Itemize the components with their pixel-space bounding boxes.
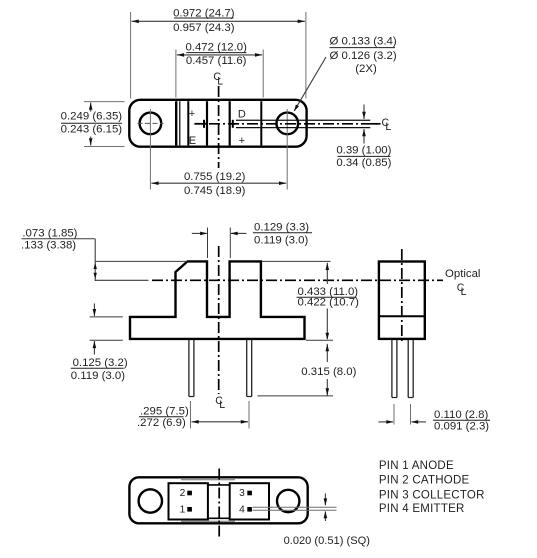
top view vertical centerline bbox=[218, 86, 220, 168]
dimension text .295 bbox=[137, 406, 189, 430]
pin function list bbox=[379, 460, 485, 515]
svg-text:0.755 (19.2): 0.755 (19.2) bbox=[184, 171, 246, 183]
front view left lead bbox=[189, 340, 194, 397]
bottom view mold lines bbox=[181, 480, 235, 522]
svg-text:.295 (7.5): .295 (7.5) bbox=[140, 406, 189, 418]
bottom view right pin block bbox=[230, 483, 269, 519]
bottom view right mounting hole bbox=[277, 490, 299, 512]
top view left mounting hole bbox=[140, 113, 162, 135]
top view package body outline bbox=[129, 100, 306, 147]
label + bottom right cavity bbox=[239, 135, 245, 147]
svg-text:+: + bbox=[189, 108, 195, 120]
dimension .073 leader and arrows bbox=[94, 239, 97, 281]
svg-text:D: D bbox=[238, 108, 246, 120]
svg-text:0.119 (3.0): 0.119 (3.0) bbox=[254, 235, 308, 247]
dimension 0.129 arrows bbox=[192, 232, 247, 236]
centerline symbol above top view bbox=[213, 71, 223, 87]
front view vertical centerline bbox=[218, 246, 220, 394]
svg-text:0.020 (0.51) (SQ): 0.020 (0.51) (SQ) bbox=[284, 535, 370, 547]
svg-text:L: L bbox=[461, 286, 467, 298]
dimension .295 extension lines bbox=[191, 401, 250, 429]
side view body outline bbox=[379, 262, 425, 339]
svg-text:0.243 (6.15): 0.243 (6.15) bbox=[61, 123, 123, 135]
dimension .295 line and arrows bbox=[192, 420, 249, 424]
front view body outline bbox=[130, 261, 305, 339]
dimension text 0.249 bbox=[61, 110, 123, 135]
top view internal divider lines bbox=[176, 101, 261, 145]
bottom view left mounting hole bbox=[139, 489, 162, 512]
svg-text:PIN 3 COLLECTOR: PIN 3 COLLECTOR bbox=[379, 489, 485, 501]
svg-text:4: 4 bbox=[239, 504, 245, 515]
svg-text:Ø 0.133 (3.4): Ø 0.133 (3.4) bbox=[330, 35, 397, 47]
svg-text:0.315 (8.0): 0.315 (8.0) bbox=[301, 366, 356, 378]
detector aperture mark bbox=[230, 120, 237, 128]
dimension 0.110 extension lines bbox=[394, 404, 411, 425]
svg-text:+: + bbox=[239, 135, 245, 147]
side view left lead bbox=[392, 340, 397, 398]
dimension 0.125 extension lines bbox=[90, 317, 123, 340]
pin 4 leader lines bbox=[253, 507, 337, 510]
optical axis label bbox=[445, 268, 480, 298]
dimension text 0.472 bbox=[185, 42, 247, 67]
svg-text:0.129 (3.3): 0.129 (3.3) bbox=[254, 221, 309, 233]
dimension 0.972 line and arrows bbox=[132, 20, 305, 24]
dimension text 0.020 bbox=[284, 535, 370, 547]
dimension 0.39 arrows bbox=[362, 105, 366, 144]
dimension 0.020 arrows bbox=[324, 494, 328, 522]
pin 3 label bbox=[239, 488, 252, 499]
bottom view slot walls bbox=[208, 485, 230, 518]
dimension 0.972 extension lines bbox=[131, 12, 306, 99]
svg-text:0.39 (1.00): 0.39 (1.00) bbox=[336, 145, 391, 157]
svg-text:0.422 (10.7): 0.422 (10.7) bbox=[298, 297, 360, 309]
dimension 0.125 arrows bbox=[93, 304, 97, 355]
dimension 0.249 arrows bbox=[89, 103, 93, 146]
svg-text:2: 2 bbox=[180, 488, 186, 499]
bottom view vertical centerline bbox=[218, 469, 220, 537]
svg-text:.133 (3.38): .133 (3.38) bbox=[21, 240, 76, 252]
svg-text:0.091 (2.3): 0.091 (2.3) bbox=[434, 420, 489, 432]
label + (anode) top left cavity bbox=[189, 108, 195, 120]
svg-text:3: 3 bbox=[239, 488, 245, 499]
svg-text:PIN 4 EMITTER: PIN 4 EMITTER bbox=[379, 503, 465, 515]
svg-text:0.110 (2.8): 0.110 (2.8) bbox=[434, 409, 488, 421]
dimension text .073 bbox=[21, 228, 95, 252]
side view flange line bbox=[379, 315, 425, 317]
dimension 0.315 line and arrows bbox=[326, 344, 330, 396]
svg-text:.073 (1.85): .073 (1.85) bbox=[22, 228, 77, 240]
svg-text:.272 (6.9): .272 (6.9) bbox=[137, 417, 186, 429]
optical axis line bbox=[95, 279, 443, 281]
svg-text:0.125 (3.2): 0.125 (3.2) bbox=[73, 357, 128, 369]
svg-text:0.472 (12.0): 0.472 (12.0) bbox=[185, 42, 247, 54]
top view horizontal centerline bbox=[209, 123, 381, 125]
svg-text:(2X): (2X) bbox=[355, 63, 377, 75]
left hole center extension line bbox=[149, 109, 151, 190]
front view right lead bbox=[247, 340, 252, 397]
tower top extension line left bbox=[95, 260, 187, 262]
dimension text 0.110 bbox=[433, 409, 490, 433]
svg-text:0.457 (11.6): 0.457 (11.6) bbox=[186, 55, 247, 67]
dimension text 0.972 bbox=[173, 7, 235, 34]
hole diameter text bbox=[330, 35, 397, 74]
svg-text:0.249 (6.35): 0.249 (6.35) bbox=[61, 110, 123, 122]
svg-text:L: L bbox=[217, 76, 223, 88]
svg-text:Ø 0.126 (3.2): Ø 0.126 (3.2) bbox=[330, 50, 397, 62]
svg-text:0.119 (3.0): 0.119 (3.0) bbox=[71, 370, 125, 382]
svg-text:0.957 (24.3): 0.957 (24.3) bbox=[173, 22, 235, 34]
svg-text:0.34 (0.85): 0.34 (0.85) bbox=[336, 157, 391, 169]
svg-text:L: L bbox=[385, 121, 391, 133]
dimension text 0.315 bbox=[301, 366, 356, 378]
emitter aperture mark bbox=[194, 120, 207, 128]
dimension 0.433 line and arrows bbox=[326, 263, 330, 340]
centerline symbol below front view bbox=[215, 395, 225, 411]
svg-text:PIN 1 ANODE: PIN 1 ANODE bbox=[379, 460, 454, 472]
label E emitter cavity bbox=[189, 135, 196, 147]
lead bottom extension line bbox=[258, 395, 334, 397]
dimension text 0.39 bbox=[336, 145, 391, 170]
hole diameter leader line bbox=[294, 57, 326, 112]
svg-text:1: 1 bbox=[180, 504, 186, 515]
svg-text:E: E bbox=[189, 135, 196, 147]
centerline symbol right of top view bbox=[372, 117, 392, 133]
label D detector cavity bbox=[238, 108, 246, 120]
pin 2 label bbox=[180, 488, 192, 499]
svg-text:PIN 2 CATHODE: PIN 2 CATHODE bbox=[379, 474, 470, 486]
bottom view left pin block bbox=[169, 483, 208, 519]
left hole crosshair bbox=[138, 122, 164, 124]
dimension 0.472 line and arrows bbox=[177, 53, 262, 57]
dimension 0.110 arrows bbox=[379, 420, 427, 424]
right hole crosshair extension bbox=[286, 109, 288, 190]
dimension 0.129 slot extension lines bbox=[208, 228, 231, 259]
top view lead edge lines bbox=[236, 120, 370, 127]
dimension 0.249 extension lines bbox=[84, 102, 125, 147]
dimension text 0.433 bbox=[297, 286, 360, 309]
pin 1 label bbox=[180, 504, 192, 515]
side view right lead bbox=[408, 340, 413, 398]
dimension text 0.755 bbox=[184, 171, 246, 197]
dimension 0.755 line and arrows bbox=[151, 181, 286, 185]
dimension text 0.125 bbox=[71, 357, 128, 382]
side view vertical centerline bbox=[401, 249, 403, 342]
bottom view package outline bbox=[129, 477, 307, 523]
svg-text:0.745 (18.9): 0.745 (18.9) bbox=[184, 185, 246, 197]
dimension 0.433 extension lines bbox=[262, 261, 333, 340]
top view right mounting hole bbox=[277, 113, 299, 135]
svg-text:L: L bbox=[219, 399, 225, 411]
pin 4 label bbox=[239, 504, 252, 515]
dimension text 0.129 bbox=[253, 221, 312, 246]
svg-text:Optical: Optical bbox=[445, 268, 480, 280]
dimension 0.472 extension lines bbox=[176, 50, 263, 98]
